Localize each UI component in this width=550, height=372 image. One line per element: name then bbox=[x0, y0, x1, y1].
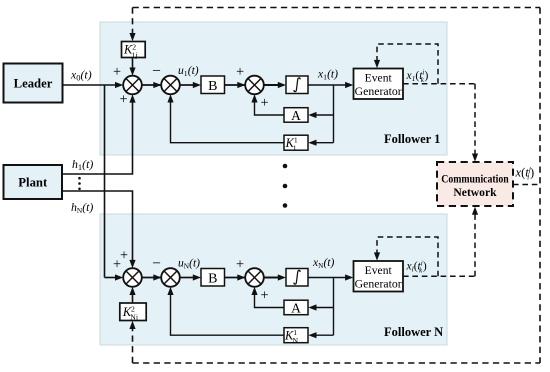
svg-text:Network: Network bbox=[453, 186, 497, 199]
wire integrator to event generator bbox=[308, 84, 347, 86]
wire K2 output down to sum1 bbox=[132, 58, 134, 72]
wire sum3 to integrator bbox=[263, 277, 280, 279]
summing junction 3 bbox=[245, 268, 264, 287]
wire dashed outer loop top bbox=[133, 7, 541, 9]
wire K2 output up to sum1 bbox=[132, 291, 134, 303]
svg-text:Generator: Generator bbox=[355, 85, 402, 98]
wire branch into K1 bbox=[314, 334, 334, 336]
svg-text:Event: Event bbox=[365, 264, 393, 277]
svg-text:+: + bbox=[120, 248, 128, 264]
svg-text:u1(t): u1(t) bbox=[178, 64, 199, 78]
svg-text:Follower N: Follower N bbox=[384, 325, 443, 339]
wire integrator to event generator bbox=[308, 277, 347, 279]
svg-text:−: − bbox=[152, 255, 161, 272]
svg-text:+: + bbox=[260, 288, 268, 304]
wire feedback branch vertical bbox=[333, 278, 335, 336]
svg-text:A: A bbox=[291, 108, 301, 123]
wire branch into K1 bbox=[314, 142, 334, 144]
block Event Generator bbox=[354, 261, 404, 292]
wire dashed into K2_Nj bbox=[132, 327, 134, 363]
svg-text:+: + bbox=[113, 64, 121, 80]
svg-text:+: + bbox=[236, 64, 244, 80]
wire dashed event generator self loop bbox=[377, 44, 438, 84]
svg-text:+: + bbox=[260, 95, 268, 111]
block integrator bbox=[286, 269, 308, 287]
wire dashed outer loop right bbox=[539, 8, 541, 364]
summing junction 1 bbox=[123, 76, 142, 95]
svg-text:B: B bbox=[208, 79, 217, 94]
wire K1 output to sum2 bbox=[171, 99, 285, 143]
svg-text:B: B bbox=[208, 271, 217, 286]
follower N background box bbox=[100, 214, 447, 345]
wire x0 branch down to follower N bbox=[104, 85, 106, 278]
block A bbox=[284, 300, 308, 315]
block K2 gain bbox=[120, 303, 146, 321]
wire dashed outer loop bottom bbox=[133, 362, 541, 364]
block K1 gain bbox=[284, 328, 308, 343]
wire dashed event generator self loop bbox=[377, 237, 438, 276]
svg-text:xl(tik): xl(tik) bbox=[406, 259, 427, 274]
wire dashed from followerN output up to network bbox=[474, 213, 476, 277]
wire sum2 to B bbox=[179, 84, 195, 86]
summing junction 3 bbox=[245, 76, 264, 95]
svg-text:+: + bbox=[236, 257, 244, 273]
plant output dots bbox=[78, 177, 81, 180]
wire h1 from Plant up into follower 1 sum bbox=[62, 101, 133, 174]
block Leader bbox=[4, 64, 63, 103]
wire K1 output to sum2 bbox=[171, 291, 285, 335]
block Event Generator bbox=[354, 69, 404, 100]
block B bbox=[201, 269, 225, 287]
svg-text:uN(t): uN(t) bbox=[178, 257, 200, 271]
block K1 gain bbox=[284, 135, 308, 150]
ellipsis dots between followers bbox=[283, 164, 288, 169]
wire feedback branch vertical bbox=[333, 85, 335, 143]
svg-text:h1(t): h1(t) bbox=[72, 157, 93, 172]
wire dashed event generator output bbox=[403, 83, 475, 85]
wire dashed network to outer loop bbox=[513, 184, 540, 186]
svg-text:+: + bbox=[119, 92, 127, 108]
svg-text:hN(t): hN(t) bbox=[71, 200, 93, 215]
block B bbox=[201, 76, 225, 94]
wire sum2 to B bbox=[179, 277, 195, 279]
wire B to sum3 bbox=[225, 84, 245, 86]
wire dashed into K2_1j bbox=[132, 8, 134, 35]
svg-text:xN(t): xN(t) bbox=[312, 256, 335, 270]
wire dashed from follower1 output down to network bbox=[474, 84, 476, 156]
block K2 gain bbox=[122, 42, 146, 58]
summing junction 2 bbox=[161, 268, 180, 287]
svg-text:Follower 1: Follower 1 bbox=[384, 132, 440, 146]
svg-text:Event: Event bbox=[365, 72, 393, 85]
svg-text:−: − bbox=[152, 62, 161, 79]
summing junction 1 bbox=[123, 268, 142, 287]
wire sum1 to sum2 bbox=[141, 277, 161, 279]
wire B to sum3 bbox=[225, 277, 245, 279]
block Communication Network bbox=[437, 162, 513, 206]
wire branch into A bbox=[314, 307, 334, 309]
block A bbox=[284, 108, 308, 123]
follower 1 background box bbox=[100, 22, 447, 155]
svg-text:A: A bbox=[291, 300, 301, 315]
svg-text:x0(t): x0(t) bbox=[70, 67, 92, 82]
block integrator bbox=[286, 76, 308, 94]
wire dashed event generator output bbox=[403, 275, 475, 277]
wire A output to sum3 bbox=[255, 99, 285, 115]
svg-text:Plant: Plant bbox=[18, 176, 48, 190]
wire hN from Plant down into follower N sum bbox=[62, 191, 133, 261]
svg-text:Generator: Generator bbox=[355, 278, 402, 291]
svg-text:x(tjl): x(tjl) bbox=[515, 165, 535, 182]
wire branch into A bbox=[314, 114, 334, 116]
svg-text:x1(t): x1(t) bbox=[317, 67, 338, 81]
wire sum1 to sum2 bbox=[141, 84, 161, 86]
wire A output to sum3 bbox=[255, 291, 285, 307]
svg-text:Leader: Leader bbox=[14, 77, 53, 91]
wire x0 from Leader to follower 1 sum bbox=[63, 84, 117, 86]
summing junction 2 bbox=[161, 76, 180, 95]
block Plant bbox=[4, 165, 63, 199]
svg-text:x1(tik): x1(tik) bbox=[406, 69, 429, 84]
svg-text:Communication: Communication bbox=[441, 172, 509, 185]
wire sum3 to integrator bbox=[263, 84, 280, 86]
